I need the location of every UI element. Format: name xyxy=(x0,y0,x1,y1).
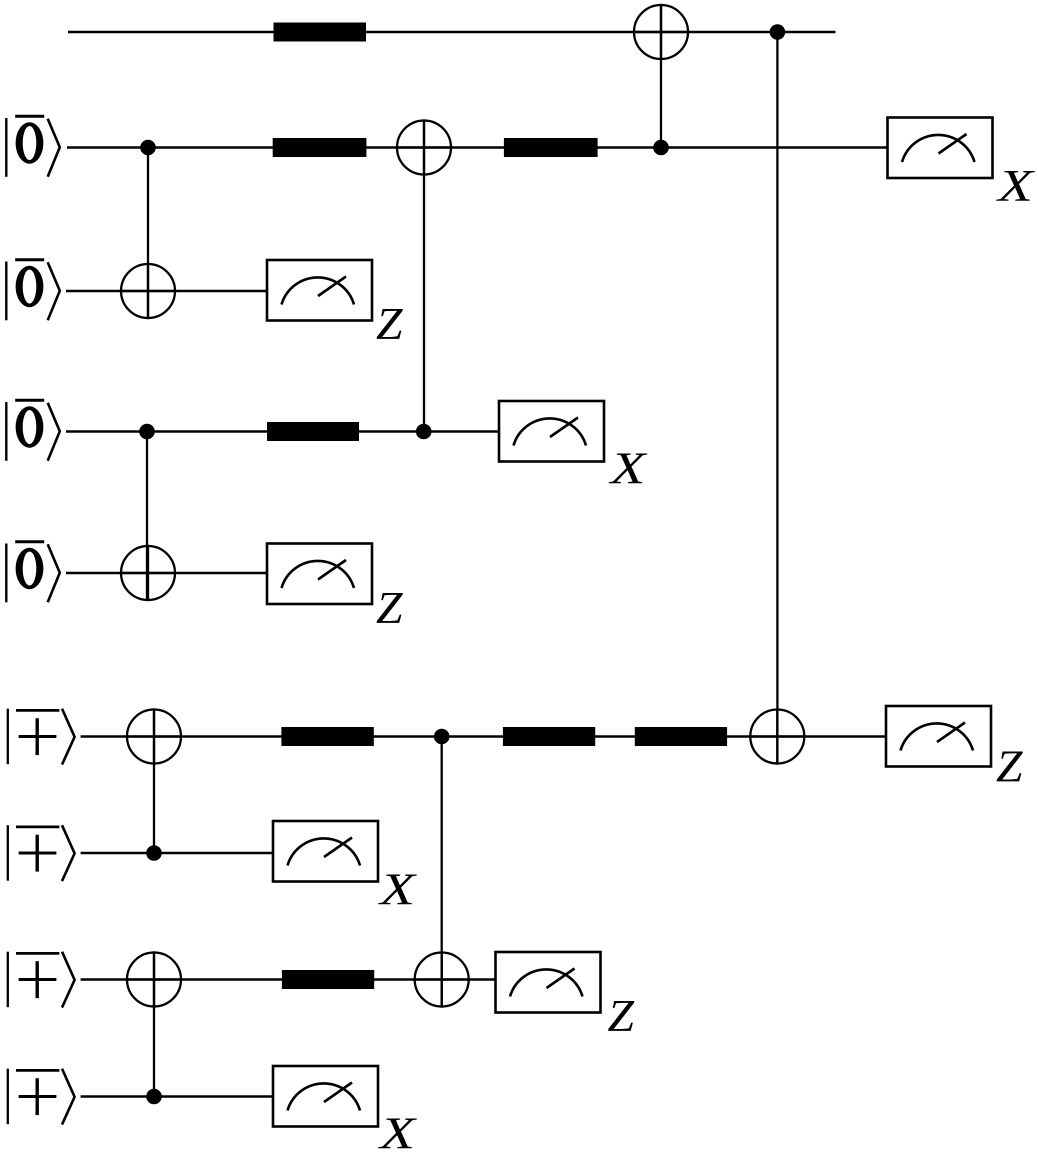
svg-text:X: X xyxy=(377,865,416,915)
svg-text:X: X xyxy=(995,161,1034,211)
svg-text:X: X xyxy=(377,1109,416,1154)
svg-text:Z: Z xyxy=(376,583,404,633)
svg-text:Z: Z xyxy=(376,299,404,349)
svg-text:Z: Z xyxy=(996,742,1024,792)
svg-text:X: X xyxy=(608,444,647,494)
svg-text:Z: Z xyxy=(608,991,636,1041)
